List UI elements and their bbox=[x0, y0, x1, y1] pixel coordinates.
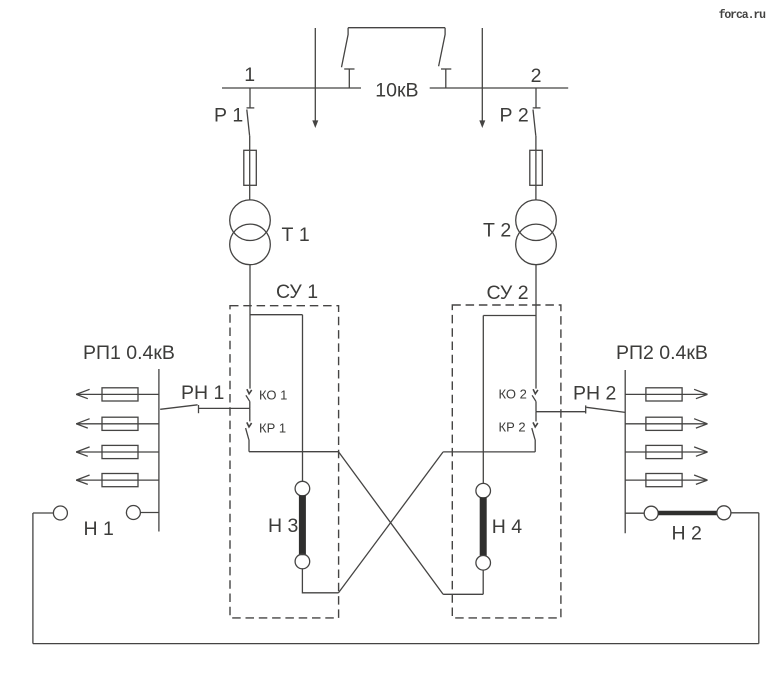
busbar РП2 bbox=[624, 370, 626, 533]
svg-text:Н 3: Н 3 bbox=[268, 515, 298, 537]
disconnector Р1 contact bar bbox=[247, 107, 255, 109]
fuse F1 bbox=[244, 150, 256, 185]
lamp Н4 bottom terminal bbox=[476, 556, 491, 571]
bus tie wire bbox=[348, 27, 445, 29]
fuse F2 bbox=[530, 150, 543, 185]
bus 1 (10kV section 1) bbox=[222, 87, 361, 89]
wire КР2 down bbox=[534, 440, 536, 452]
wire КО1 to node bbox=[249, 401, 251, 408]
contactor КР1 bbox=[249, 408, 251, 421]
svg-text:КО 2: КО 2 bbox=[499, 387, 527, 402]
busbar РП1 bbox=[158, 369, 160, 532]
transformer Т2 bbox=[516, 200, 557, 241]
control unit box СУ2 bbox=[452, 305, 561, 618]
node branch wire to bypass bbox=[250, 314, 303, 316]
РП2 feeder 4 bbox=[625, 479, 707, 481]
svg-text:КР 1: КР 1 bbox=[259, 421, 286, 436]
wire bypass down to lamp Н4 bbox=[482, 316, 484, 484]
feeder line left bbox=[314, 28, 316, 122]
svg-text:РП2 0.4кВ: РП2 0.4кВ bbox=[616, 342, 708, 364]
wire Р2 to Т2 bbox=[535, 136, 537, 200]
disconnector Р2 contact bar bbox=[533, 107, 541, 109]
wire Т1 to КО1 bbox=[249, 265, 251, 389]
lamp socket Н1 left terminal bbox=[53, 506, 67, 520]
disconnector Р2 stem bbox=[535, 88, 537, 108]
svg-text:Н 1: Н 1 bbox=[84, 518, 114, 540]
contactor КО1 bbox=[247, 389, 252, 394]
РП1 feeder 1 bbox=[76, 393, 159, 395]
РП1 feeder 4 fuse bbox=[102, 474, 138, 487]
svg-text:РН 2: РН 2 bbox=[573, 383, 616, 405]
switch РН2 contact bbox=[585, 405, 587, 413]
wire Н2 riser right bbox=[758, 513, 760, 644]
wire КР1 down bbox=[248, 440, 250, 452]
wire Н1 riser left bbox=[32, 513, 34, 644]
wire Т2 to КО2 bbox=[535, 265, 537, 389]
lamp Н4 filament bar bbox=[480, 497, 487, 556]
lamp Н2 left terminal bbox=[644, 506, 658, 520]
wire bottom tie bbox=[33, 643, 759, 645]
lamp socket Н1 right terminal bbox=[126, 506, 140, 520]
feeder arrow right bbox=[479, 120, 485, 128]
feeder line right bbox=[481, 28, 483, 122]
switch РН1 contact bbox=[198, 405, 200, 413]
РП2 feeder 3 bbox=[625, 451, 707, 453]
svg-text:СУ 2: СУ 2 bbox=[487, 282, 529, 304]
wire bottom rail СУ1 bbox=[249, 451, 339, 453]
wire Н4 bottom bbox=[482, 570, 484, 594]
crossover wire B (СУ2 rail to Н3) bbox=[339, 452, 444, 593]
svg-text:КО 1: КО 1 bbox=[259, 388, 287, 403]
bus 2 (10kV section 2) bbox=[430, 87, 569, 89]
РП2 feeder 1 bbox=[625, 393, 707, 395]
contactor КР2 bbox=[535, 412, 537, 422]
wire Н2 right bbox=[731, 512, 759, 514]
wire bottom rail СУ2 bbox=[443, 451, 535, 453]
РП1 feeder 4 bbox=[76, 479, 159, 481]
lamp Н3 top terminal bbox=[295, 481, 310, 496]
tie switch contact right bbox=[441, 68, 451, 70]
lamp Н3 bottom terminal bbox=[295, 554, 310, 569]
wire РН1 to КО1/КР1 node bbox=[199, 407, 250, 409]
disconnector Р1 stem bbox=[249, 88, 251, 108]
wire Н3 bottom bbox=[302, 569, 338, 593]
node branch wire to bypass right bbox=[483, 315, 536, 317]
transformer Т1 bbox=[230, 200, 271, 241]
wire node to РН2 bbox=[536, 411, 586, 413]
РП2 feeder 3 fuse bbox=[646, 445, 682, 458]
svg-text:Т 2: Т 2 bbox=[483, 220, 511, 242]
svg-text:РН 1: РН 1 bbox=[181, 382, 224, 404]
svg-text:forca.ru: forca.ru bbox=[719, 9, 767, 22]
wire to lamp Н4 bottom bbox=[443, 593, 483, 595]
lamp Н2 filament bar bbox=[658, 511, 717, 516]
РП2 feeder 2 bbox=[625, 423, 707, 425]
wire Н1 left bbox=[33, 512, 54, 514]
tie switch blade left bbox=[342, 28, 349, 68]
svg-text:10кВ: 10кВ bbox=[375, 80, 418, 102]
РП1 feeder 1 fuse bbox=[102, 388, 138, 401]
wire bypass down to lamp Н3 bbox=[302, 315, 304, 482]
lamp Н2 right terminal bbox=[717, 506, 731, 520]
disconnector Р1 blade bbox=[247, 110, 250, 136]
switch РН1 blade bbox=[160, 405, 197, 410]
РП1 feeder 3 bbox=[76, 451, 159, 453]
svg-text:2: 2 bbox=[531, 65, 542, 87]
feeder arrow left bbox=[312, 120, 318, 128]
svg-text:КР 2: КР 2 bbox=[499, 420, 526, 435]
РП1 feeder 3 fuse bbox=[102, 445, 138, 458]
svg-text:Н 2: Н 2 bbox=[672, 523, 702, 545]
РП1 feeder 2 fuse bbox=[102, 417, 138, 430]
lamp Н3 filament bar bbox=[299, 495, 306, 555]
disconnector Р2 blade bbox=[533, 110, 536, 136]
РП2 feeder 4 fuse bbox=[646, 474, 682, 487]
РП2 feeder 1 fuse bbox=[646, 388, 682, 401]
contactor КО2 bbox=[533, 389, 538, 394]
svg-text:СУ 1: СУ 1 bbox=[276, 281, 318, 303]
wire КО2 to node bbox=[535, 401, 537, 411]
wire Р1 to Т1 bbox=[249, 136, 251, 200]
wire Н2 left to bus bbox=[625, 512, 644, 514]
tie switch contact left bbox=[344, 68, 354, 70]
switch РН2 blade bbox=[586, 407, 625, 412]
svg-text:Р 2: Р 2 bbox=[500, 105, 529, 127]
svg-text:Р 1: Р 1 bbox=[214, 105, 243, 127]
crossover wire A (СУ1 rail to Н4) bbox=[339, 452, 444, 595]
lamp Н4 top terminal bbox=[476, 483, 491, 498]
control unit box СУ1 bbox=[230, 306, 339, 618]
svg-text:Т 1: Т 1 bbox=[282, 224, 310, 246]
svg-text:Н 4: Н 4 bbox=[492, 516, 523, 538]
tie switch blade right bbox=[439, 28, 446, 67]
РП2 feeder 2 fuse bbox=[646, 417, 682, 430]
svg-text:РП1 0.4кВ: РП1 0.4кВ bbox=[83, 342, 175, 364]
wire Н1 right to bus bbox=[140, 512, 159, 514]
svg-text:1: 1 bbox=[244, 64, 255, 86]
РП1 feeder 2 bbox=[76, 423, 159, 425]
